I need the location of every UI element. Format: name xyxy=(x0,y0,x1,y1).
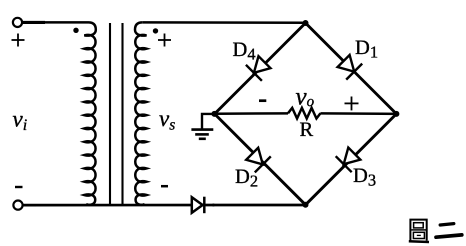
diode D3 (lower-right arm) xyxy=(336,146,363,173)
svg-text:D3: D3 xyxy=(353,165,376,190)
node top vertex xyxy=(303,20,309,26)
node bottom vertex xyxy=(303,202,309,208)
node right vertex xyxy=(393,111,399,117)
svg-text:vo: vo xyxy=(296,84,315,111)
diode D1 (upper-right arm) xyxy=(336,53,363,80)
polarity dot secondary xyxy=(153,28,158,33)
wire diagonal bottom-right (B to R) xyxy=(306,114,397,205)
svg-text:D2: D2 xyxy=(235,166,258,191)
terminal bottom-left xyxy=(13,201,22,210)
ground xyxy=(191,114,214,139)
wire middle left (L to resistor) xyxy=(215,112,288,115)
svg-text:D4: D4 xyxy=(233,39,256,64)
plus sign (v_o right) xyxy=(345,97,359,111)
node left vertex xyxy=(211,111,217,117)
svg-text:vi: vi xyxy=(13,106,28,134)
resistor R xyxy=(288,108,320,119)
polarity dot primary xyxy=(73,28,78,33)
diode D2 (lower-left arm) xyxy=(244,146,271,173)
svg-text:R: R xyxy=(300,119,314,141)
wire diagonal left-bottom (L to B) xyxy=(215,114,306,205)
minus sign (primary input) xyxy=(15,186,23,188)
wire top-left (terminal to primary) xyxy=(22,21,45,24)
figure caption 圖二 xyxy=(409,220,462,242)
minus sign (v_o left) xyxy=(259,99,266,102)
plus sign (secondary top) xyxy=(158,34,171,47)
wire bottom rail xyxy=(23,204,306,207)
wire top rail (secondary to bridge top) xyxy=(142,21,305,24)
diode D4 (upper-left arm) xyxy=(246,54,273,81)
transformer secondary winding xyxy=(135,22,147,204)
plus sign (primary input) xyxy=(12,34,25,47)
svg-text:D1: D1 xyxy=(355,37,378,62)
minus sign (secondary bottom) xyxy=(161,185,168,188)
wire diagonal left-top (L to T) xyxy=(215,23,306,114)
wire diagonal top-right (T to R) xyxy=(306,23,397,114)
junction blip on bottom rail xyxy=(212,204,215,207)
terminal top-left xyxy=(13,18,22,27)
transformer core xyxy=(109,23,111,205)
svg-text:vs: vs xyxy=(159,106,175,134)
wire middle right (resistor to R vertex) xyxy=(320,112,396,115)
diode (bottom rail, unlabeled) xyxy=(192,197,205,214)
transformer primary winding xyxy=(84,22,96,204)
